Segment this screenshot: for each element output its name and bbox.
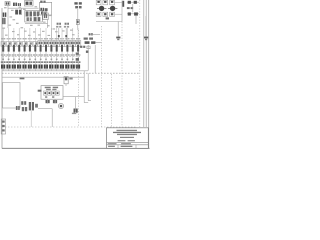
harness boundary dotted right bbox=[139, 0, 141, 127]
wire label col 8 bbox=[38, 54, 40, 55]
connector block col 1 bbox=[1, 65, 3, 69]
wire label col 15 bbox=[76, 54, 78, 55]
splice dot col 9 bbox=[45, 59, 47, 60]
valve symbol V1 bbox=[2, 45, 4, 52]
module label M-6 bbox=[38, 90, 42, 92]
wire label col 6 bbox=[28, 54, 30, 55]
splice dot col 15 bbox=[77, 59, 79, 60]
wire label col 3 bbox=[12, 54, 14, 55]
label W2 wire text bbox=[74, 2, 77, 4]
wire label col 10 bbox=[49, 54, 51, 55]
title bottom cell dividers bbox=[117, 145, 119, 149]
injector circuit column 10 wire bbox=[50, 28, 52, 71]
fuse F11 row2 bbox=[127, 13, 139, 15]
ECM connector frame bbox=[121, 1, 123, 22]
connector block col 15 bbox=[76, 65, 78, 69]
module terminals bbox=[44, 91, 47, 95]
wire tag right of ECM bbox=[122, 1, 124, 7]
wire top-left horizontal bbox=[8, 7, 39, 9]
splice dot col 8 bbox=[40, 59, 42, 60]
band top labels bbox=[1, 38, 3, 39]
wire label col 11 bbox=[54, 54, 56, 55]
splice dot col 3 bbox=[13, 59, 15, 60]
splice S1 bbox=[76, 20, 79, 25]
title divider 2 bbox=[107, 144, 149, 146]
injector solenoid L8 bbox=[38, 41, 43, 47]
wire sensor vertical 2 bbox=[65, 28, 67, 40]
band right small marks bbox=[76, 53, 79, 55]
injector solenoid L13 bbox=[65, 41, 70, 47]
ECM relay blob row 2 right bbox=[110, 6, 115, 11]
junction box outline bbox=[3, 83, 20, 109]
valve symbol V11 bbox=[56, 45, 58, 52]
misc tiny wire labels top area bbox=[4, 7, 7, 8]
control module box bbox=[41, 86, 63, 100]
injector solenoid L14 bbox=[70, 41, 75, 47]
wire vertical x95 bbox=[94, 45, 96, 73]
ground symbol B bbox=[144, 37, 148, 39]
title text line 3 bbox=[117, 134, 137, 135]
ground symbol A bbox=[116, 37, 120, 39]
injector circuit column 9 wire bbox=[45, 28, 47, 71]
wire label col 7 bbox=[33, 54, 35, 55]
terminal label col 8 bbox=[38, 61, 40, 63]
splice dot col 12 bbox=[61, 59, 63, 60]
injector solenoid L3 bbox=[12, 42, 16, 47]
valve symbol V3 bbox=[13, 45, 15, 52]
wire fuse vertical bbox=[132, 4, 134, 12]
valve symbol V15 bbox=[77, 45, 79, 52]
connector block col 3 bbox=[12, 65, 14, 69]
terminal label col 12 bbox=[60, 61, 62, 63]
ECM terminal row 3 bbox=[96, 12, 101, 16]
title text line 1 bbox=[117, 130, 138, 131]
connector block col 6 bbox=[28, 65, 30, 69]
wire sensor vertical 1 bbox=[58, 28, 60, 40]
connector block col 8 bbox=[38, 65, 40, 69]
injector circuit column 3 wire bbox=[13, 28, 15, 71]
solenoid SV1 bbox=[64, 77, 68, 84]
valve symbol V13 bbox=[66, 45, 68, 52]
ECM terminal row 1 bbox=[96, 0, 101, 4]
valve symbol V14 bbox=[72, 45, 74, 52]
injector circuit column 7 wire bbox=[34, 28, 36, 71]
label on feed wire bbox=[20, 78, 25, 80]
wire label col 13 bbox=[65, 54, 67, 55]
connector J1 bbox=[25, 1, 34, 7]
ECM pin wires bbox=[115, 1, 123, 3]
injector solenoid L9 bbox=[43, 41, 48, 47]
sensor G1 circle bbox=[58, 103, 63, 108]
injector circuit column 2 wire bbox=[8, 28, 10, 71]
title block frame bbox=[107, 128, 149, 149]
injector circuit column 1 wire bbox=[2, 28, 4, 71]
relay K3 bbox=[15, 10, 18, 15]
injector circuit column 5 wire bbox=[24, 28, 26, 71]
injector circuit column 14 wire bbox=[72, 28, 74, 71]
valve symbol V10 bbox=[50, 45, 52, 52]
wire label col 9 bbox=[44, 54, 46, 55]
wire vertical x78 top bbox=[77, 9, 79, 30]
wire return bus horizontal bbox=[2, 68, 80, 70]
wire pump drop 2 bbox=[30, 111, 32, 127]
valve symbol V6 bbox=[29, 45, 31, 52]
terminal label col 2 bbox=[6, 61, 8, 63]
harness dashed vertical x122 bbox=[121, 22, 123, 128]
connector block col 4 bbox=[17, 65, 19, 69]
title text line 4 bbox=[120, 137, 134, 138]
title bottom cell text bbox=[108, 146, 115, 147]
breaker CB1 left column bbox=[3, 13, 5, 17]
injector circuit column 13 wire bbox=[66, 28, 68, 71]
border frame bottom bbox=[2, 147, 150, 149]
wire pump drop bbox=[51, 109, 53, 127]
connector block col 14 bbox=[71, 65, 73, 69]
border frame left bbox=[1, 8, 3, 149]
valve symbol V8 bbox=[40, 45, 42, 52]
wire ground bus horizontal bbox=[2, 70, 88, 72]
valve symbol V12 bbox=[61, 45, 63, 52]
splice dot col 11 bbox=[56, 59, 58, 60]
connector block col 11 bbox=[55, 65, 57, 69]
wires below module bbox=[47, 99, 49, 103]
injector circuit column 11 wire bbox=[56, 28, 58, 71]
wire SV1 down bbox=[65, 84, 67, 86]
terminal label col 13 bbox=[65, 61, 67, 63]
harness dashed vertical x78 bbox=[78, 30, 80, 127]
bulkhead connector C1 bbox=[1, 119, 5, 134]
wire pump to bus bbox=[38, 108, 52, 110]
band mid dashed label bus bbox=[2, 56, 80, 58]
terminal label col 10 bbox=[49, 61, 51, 63]
terminal label col 4 bbox=[17, 61, 19, 63]
fuse F1 top-left bbox=[5, 2, 10, 6]
wire label col 1 bbox=[1, 54, 3, 55]
wire label col 5 bbox=[22, 54, 24, 55]
sensor labels mid bbox=[57, 23, 59, 25]
injector solenoid L12 bbox=[59, 41, 64, 47]
wire below relay bank bbox=[25, 23, 48, 25]
label TEST bbox=[127, 7, 130, 9]
title divider 1 bbox=[107, 141, 149, 143]
splice dot col 5 bbox=[24, 59, 26, 60]
pump motor cluster bbox=[16, 106, 18, 110]
injector solenoid L1 bbox=[1, 42, 5, 47]
wire label col 14 bbox=[71, 54, 73, 55]
connector block col 10 bbox=[49, 65, 51, 69]
relay K2 bbox=[40, 1, 42, 3]
injector solenoid L6 bbox=[28, 42, 32, 47]
injector solenoid L11 bbox=[54, 41, 59, 47]
injector circuit column 15 wire bbox=[77, 28, 79, 71]
splice dot col 6 bbox=[29, 59, 31, 60]
diode block D1 bbox=[43, 13, 48, 20]
terminal label col 6 bbox=[28, 61, 30, 63]
injector circuit column 4 wire bbox=[18, 28, 20, 71]
terminal label col 3 bbox=[12, 61, 14, 63]
wire label col 2 bbox=[6, 54, 8, 55]
label bottom small bbox=[72, 113, 76, 114]
connector pair below module bbox=[46, 100, 48, 103]
wire module right bbox=[63, 96, 84, 98]
harness dashed vertical x101 bbox=[101, 26, 103, 127]
connector block col 12 bbox=[60, 65, 62, 69]
connector block col 5 bbox=[22, 65, 24, 69]
harness boundary dashed horizontal bottom bbox=[2, 126, 136, 128]
title row cells bbox=[108, 143, 117, 144]
connector block col 2 bbox=[6, 65, 8, 69]
connector block col 7 bbox=[33, 65, 35, 69]
terminal label col 1 bbox=[1, 61, 3, 63]
wire to ground A bbox=[117, 22, 119, 37]
wire top-left vertical bbox=[7, 6, 9, 29]
splice dot col 2 bbox=[8, 59, 10, 60]
valve symbol V7 bbox=[34, 45, 36, 52]
wire label col 12 bbox=[60, 54, 62, 55]
ground stub G2 bbox=[75, 97, 77, 112]
wire to ground B bbox=[145, 16, 147, 37]
wire main feed horizontal bbox=[2, 76, 84, 78]
injector solenoid L15 bbox=[75, 41, 80, 47]
splice dot col 14 bbox=[72, 59, 74, 60]
splice dot col 10 bbox=[51, 59, 53, 60]
terminal label col 11 bbox=[54, 61, 56, 63]
ECM label below bbox=[106, 17, 109, 19]
terminal label col 5 bbox=[22, 61, 24, 63]
splice dot col 13 bbox=[67, 59, 69, 60]
terminal label col 14 bbox=[70, 61, 72, 63]
sensor cluster right of band bbox=[89, 33, 91, 35]
injector circuit column 8 wire bbox=[40, 28, 42, 71]
valve symbol V9 bbox=[45, 45, 47, 52]
injector solenoid L10 bbox=[49, 41, 54, 47]
border frame right margin lines bbox=[143, 0, 145, 127]
connector block col 9 bbox=[44, 65, 46, 69]
wire drop x21 bbox=[21, 8, 23, 15]
splice dot col 4 bbox=[18, 59, 20, 60]
relay bank K4 bbox=[25, 11, 43, 23]
fuse F10 row1 bbox=[127, 1, 139, 3]
ECM relay blob row 2 left bbox=[99, 6, 104, 11]
title text line 5 bbox=[118, 140, 126, 141]
title text line 2 bbox=[113, 132, 141, 133]
injector solenoid L4 bbox=[17, 42, 21, 47]
harness boundary dashed horizontal mid bbox=[2, 72, 139, 74]
terminal label col 15 bbox=[76, 61, 78, 63]
terminal label col 7 bbox=[33, 61, 35, 63]
relay K1 bbox=[13, 3, 15, 6]
valve symbol V4 bbox=[18, 45, 20, 52]
wire vertical x88 bbox=[87, 45, 89, 71]
splice dot col 1 bbox=[2, 59, 4, 60]
harness dashed vertical x111 bbox=[111, 74, 113, 127]
wire label col 4 bbox=[17, 54, 19, 55]
splice dot col 7 bbox=[35, 59, 37, 60]
wire fuse vertical 2 bbox=[135, 16, 137, 24]
terminal label col 9 bbox=[44, 61, 46, 63]
box edge vertical x51 bbox=[51, 3, 53, 40]
valve symbol V5 bbox=[24, 45, 26, 52]
injector circuit column 12 wire bbox=[61, 28, 63, 71]
valve symbol V2 bbox=[8, 45, 10, 52]
connector block col 13 bbox=[65, 65, 67, 69]
injector solenoid L2 bbox=[6, 42, 10, 47]
injector solenoid L7 bbox=[33, 42, 37, 47]
injector circuit column 6 wire bbox=[29, 28, 31, 71]
wire riser pair bbox=[83, 71, 85, 103]
injector solenoid L5 bbox=[22, 42, 26, 47]
wire stub bbox=[47, 20, 49, 29]
